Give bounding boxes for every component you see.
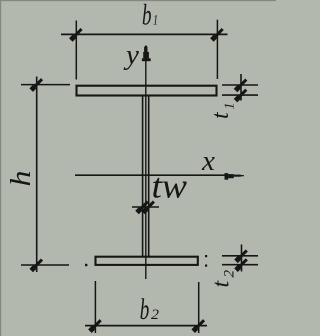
- centerline dot pair right of bottom flange (upper): [205, 255, 207, 257]
- t2 extension line top: [222, 255, 258, 257]
- svg-text:1: 1: [223, 103, 238, 110]
- y axis centerline: [145, 56, 147, 279]
- dimension t2 vertical line: [241, 245, 243, 272]
- x axis: [75, 174, 228, 176]
- svg-text:x: x: [201, 145, 215, 177]
- frame top edge: [0, 0, 276, 1]
- svg-text:y: y: [123, 39, 139, 71]
- svg-text:tw: tw: [152, 167, 188, 206]
- dimension b2 line: [85, 325, 207, 327]
- h tick bottom: [31, 260, 42, 271]
- b2 tick left: [90, 320, 101, 331]
- h extension line bottom: [21, 264, 69, 266]
- svg-text:h: h: [5, 171, 37, 187]
- x axis arrowhead: [225, 173, 229, 180]
- centerline dot pair right of bottom flange (lower): [205, 265, 207, 267]
- tw tick right: [143, 202, 154, 213]
- b2 extension line right: [198, 282, 200, 333]
- dimension t1 vertical line: [240, 74, 242, 101]
- svg-text:2: 2: [151, 307, 160, 323]
- tw tick left: [137, 202, 148, 213]
- bottom flange: [96, 257, 198, 265]
- b1 extension line left: [75, 21, 77, 80]
- t1 extension line bottom: [222, 94, 258, 96]
- dimension tw line: [132, 206, 159, 208]
- b1 extension line right: [216, 20, 218, 79]
- b2 tick right: [193, 320, 204, 331]
- web left edge: [142, 97, 144, 257]
- b1 tick left: [71, 29, 82, 40]
- frame left edge: [0, 0, 1, 336]
- svg-text:b: b: [142, 0, 152, 32]
- centerline dot left of bottom flange: [85, 264, 87, 266]
- web right edge: [148, 97, 150, 257]
- t1 tick top: [236, 80, 247, 91]
- dimension b1 line: [61, 33, 228, 35]
- t2 tick top: [236, 250, 247, 261]
- t1 tick bottom: [236, 90, 247, 101]
- h extension line top: [21, 84, 70, 86]
- t1 extension line top: [222, 84, 258, 86]
- b2 extension line left: [94, 281, 96, 333]
- svg-text:b: b: [140, 293, 150, 326]
- top flange: [77, 86, 217, 96]
- b1 tick right: [212, 29, 223, 40]
- h tick top: [31, 79, 42, 90]
- y axis arrowhead: [145, 46, 147, 48]
- svg-text:2: 2: [222, 270, 238, 278]
- svg-text:1: 1: [153, 13, 158, 29]
- t2 tick bottom: [236, 259, 247, 270]
- dimension h line: [36, 77, 38, 273]
- t2 extension line bottom: [222, 264, 258, 266]
